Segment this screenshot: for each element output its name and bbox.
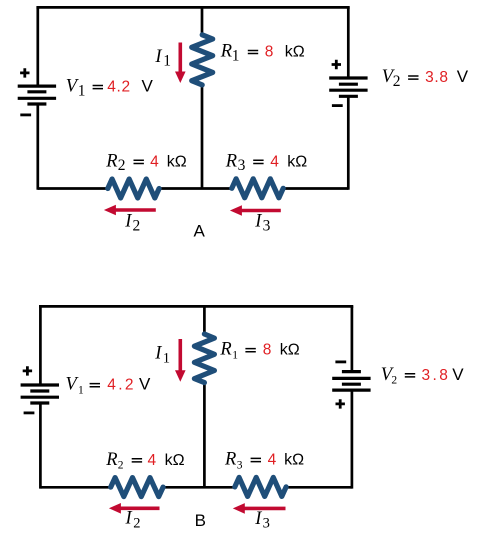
current arrow I2 (circuit A, leftward)	[104, 205, 156, 216]
wire: circuit A right branch, below battery V2	[347, 96, 350, 190]
current arrow I1 (circuit B, downward)	[175, 339, 186, 382]
battery V2(A) plus sign	[332, 60, 341, 69]
wire: circuit B middle branch, above R1	[203, 306, 206, 335]
battery V1(B) plate 4 short (- terminal)	[30, 401, 49, 404]
svg-text:3: 3	[263, 516, 270, 532]
svg-text:3: 3	[237, 459, 243, 471]
wire: circuit A left branch, above battery V1	[36, 7, 39, 86]
svg-text:1: 1	[232, 47, 240, 64]
resistor R1 (circuit B, vertical, 8 kOhm)	[194, 334, 214, 383]
svg-text:I: I	[154, 47, 162, 67]
svg-text:kΩ: kΩ	[284, 452, 304, 469]
wire: circuit A left branch, below battery V1	[36, 104, 39, 190]
svg-text:2: 2	[393, 73, 401, 90]
wire: circuit A top rail	[36, 6, 349, 9]
svg-text:I: I	[254, 509, 262, 529]
battery V2(A) minus sign	[332, 104, 343, 107]
battery V2(A) plate 4 short (- terminal)	[339, 95, 358, 98]
svg-text:I: I	[154, 344, 162, 364]
wire: circuit A middle branch, above R1	[201, 7, 204, 36]
resistor R3 (circuit B, horizontal, 4 kOhm)	[235, 477, 286, 496]
svg-text:4: 4	[148, 452, 157, 469]
battery V2(B) plus sign	[336, 399, 345, 408]
label V1 = 4.2 V (circuit A)	[66, 77, 154, 100]
label R3 = 4 kOhm (circuit A)	[225, 151, 307, 174]
label R3 = 4 kOhm (circuit B)	[224, 450, 304, 472]
label I2 (circuit A)	[124, 212, 140, 235]
svg-text:V: V	[452, 365, 464, 384]
label R1 = 8 kOhm (circuit B)	[219, 340, 299, 362]
node label A	[194, 222, 206, 241]
svg-text:kΩ: kΩ	[287, 153, 307, 170]
svg-text:4: 4	[268, 452, 277, 469]
wire: circuit A bottom rail, left of R2	[38, 187, 108, 190]
svg-text:R: R	[220, 42, 232, 62]
svg-text:3.8: 3.8	[422, 367, 451, 384]
label I1 (circuit A)	[154, 47, 171, 70]
wire: circuit A bottom rail, right of R3	[283, 187, 348, 190]
svg-text:3: 3	[238, 157, 246, 174]
node label B	[195, 511, 206, 530]
svg-text:kΩ: kΩ	[280, 342, 300, 359]
svg-text:R: R	[224, 450, 236, 470]
current arrow I2 (circuit B, leftward)	[109, 503, 160, 514]
svg-text:4.2: 4.2	[107, 377, 136, 394]
label V2 = 3.8 V (circuit A)	[382, 67, 469, 90]
label V2 = 3.8 V (circuit B)	[381, 365, 465, 387]
label I3 (circuit A)	[254, 212, 270, 235]
svg-text:V: V	[457, 67, 469, 86]
svg-text:2: 2	[118, 460, 124, 472]
wire: circuit A right branch, above battery V2	[347, 7, 350, 78]
svg-text:A: A	[194, 222, 206, 241]
battery V1(A) plus sign	[20, 68, 29, 77]
svg-text:3.8: 3.8	[425, 69, 449, 86]
svg-text:kΩ: kΩ	[167, 153, 187, 170]
svg-text:R: R	[105, 151, 117, 171]
svg-text:4: 4	[150, 153, 159, 170]
label I2 (circuit B)	[125, 509, 141, 532]
battery V2(A) plate 1 long (+ terminal)	[329, 76, 367, 79]
wire: circuit B top rail	[39, 305, 353, 308]
label I3 (circuit B)	[254, 509, 270, 532]
battery V1(A) plate 1 long (+ terminal)	[18, 84, 56, 87]
resistor R1 (circuit A, vertical, 8 kOhm)	[192, 35, 213, 85]
wire: circuit A bottom rail, between R2 and R3	[159, 187, 232, 190]
svg-text:R: R	[219, 340, 231, 360]
svg-text:kΩ: kΩ	[285, 44, 305, 61]
battery V2(B) minus sign	[335, 360, 346, 363]
resistor R2 (circuit A, horizontal, 4 kOhm)	[108, 179, 159, 198]
svg-text:8: 8	[263, 342, 272, 359]
battery V1(B) plate 2 short	[30, 389, 49, 392]
svg-text:1: 1	[78, 385, 84, 397]
svg-text:2: 2	[391, 375, 397, 387]
svg-text:1: 1	[232, 350, 238, 362]
battery V1(A) plate 2 short	[27, 90, 46, 93]
svg-text:1: 1	[163, 53, 171, 70]
svg-text:V: V	[139, 375, 151, 394]
battery V2(A) plate 3 long	[329, 89, 367, 92]
battery V2(A) plate 2 short	[339, 83, 358, 86]
svg-text:2: 2	[133, 218, 141, 235]
wire: circuit B bottom rail, right of R3	[286, 486, 352, 489]
label R2 = 4 kOhm (circuit B)	[105, 450, 184, 472]
svg-text:R: R	[225, 151, 237, 171]
wire: circuit B bottom rail, left of R2	[40, 486, 110, 489]
svg-text:I: I	[254, 212, 262, 232]
resistor R2 (circuit B, horizontal, 4 kOhm)	[111, 478, 163, 497]
battery V2(B) plate 2 long	[332, 377, 370, 380]
battery V1(B) minus sign	[24, 411, 35, 414]
label V1 = 4.2 V (circuit B)	[66, 375, 152, 397]
label R1 = 8 kOhm (circuit A)	[220, 42, 305, 65]
battery V2(B) plate 4 long (+ terminal)	[332, 389, 370, 392]
wire: circuit B middle branch, below R1	[203, 382, 206, 488]
battery V1(A) plate 4 short (- terminal)	[27, 102, 46, 105]
wire: circuit B bottom rail, between R2 and R3	[163, 486, 235, 489]
resistor R3 (circuit A, horizontal, 4 kOhm)	[232, 179, 283, 198]
svg-text:4: 4	[270, 153, 279, 170]
svg-text:I: I	[125, 509, 133, 529]
battery V1(A) minus sign	[20, 114, 31, 117]
label I1 (circuit B)	[154, 344, 170, 367]
svg-text:I: I	[124, 212, 132, 232]
battery V1(B) plate 1 long (+ terminal)	[21, 383, 59, 386]
svg-text:8: 8	[265, 44, 274, 61]
current arrow I3 (circuit A, leftward)	[230, 205, 281, 216]
svg-text:2: 2	[118, 157, 126, 174]
svg-text:4.2: 4.2	[107, 79, 131, 96]
svg-text:3: 3	[263, 217, 271, 234]
wire: circuit A middle branch, below R1	[201, 84, 204, 189]
wire: circuit B right branch, below battery V2	[351, 390, 354, 489]
svg-text:B: B	[195, 511, 206, 530]
battery V2(B) plate 1 short (- terminal)	[342, 370, 361, 373]
label R2 = 4 kOhm (circuit A)	[105, 151, 187, 174]
wire: circuit B left branch, above battery V1	[39, 306, 42, 385]
wire: circuit B right branch, above battery V2	[351, 306, 354, 371]
svg-text:2: 2	[133, 515, 140, 531]
svg-text:V: V	[142, 77, 154, 96]
battery V2(B) plate 3 short	[342, 383, 361, 386]
svg-text:R: R	[105, 450, 117, 470]
wire: circuit B left branch, below battery V1	[39, 403, 42, 489]
battery V1(A) plate 3 long	[18, 97, 56, 100]
current arrow I3 (circuit B, leftward)	[233, 503, 286, 514]
current arrow I1 (circuit A, downward)	[175, 43, 186, 84]
svg-text:1: 1	[78, 82, 86, 99]
svg-text:1: 1	[163, 351, 170, 367]
svg-text:kΩ: kΩ	[165, 452, 185, 469]
battery V1(B) plate 3 long	[21, 396, 59, 399]
battery V1(B) plus sign	[23, 366, 32, 375]
